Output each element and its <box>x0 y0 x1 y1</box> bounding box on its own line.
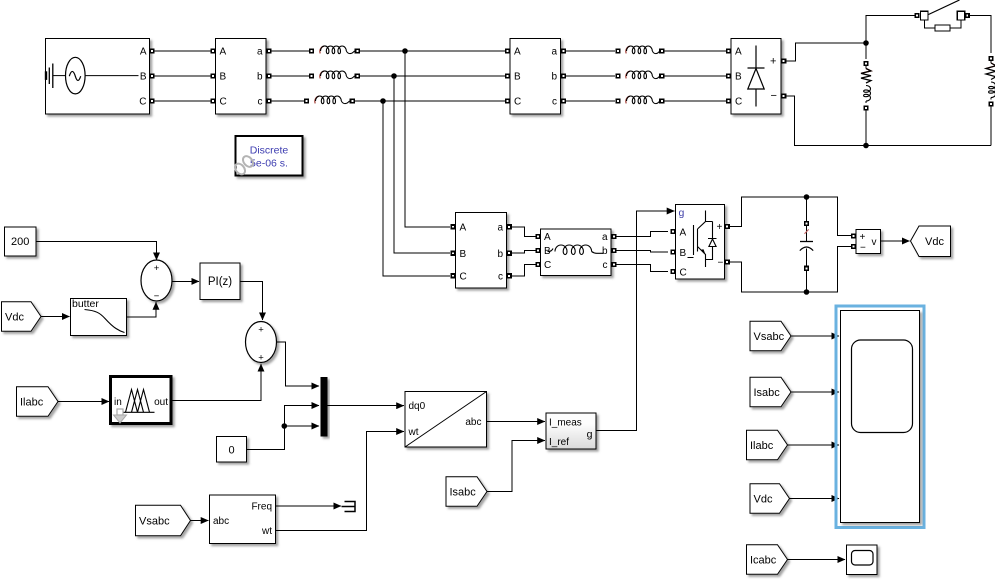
svg-text:+: + <box>258 325 264 336</box>
svg-text:B: B <box>514 72 521 83</box>
wire source B to measurement1 B <box>155 75 211 77</box>
wire rectifier + to load bus <box>786 43 863 61</box>
svg-text:C: C <box>544 260 551 271</box>
svg-text:−: − <box>718 258 724 269</box>
svg-text:b: b <box>257 72 263 83</box>
from tag Vsabc right <box>750 321 791 351</box>
svg-text:−: − <box>154 291 160 302</box>
wire Vsabc tag to PLL <box>191 520 209 522</box>
wire voltage measurement to Vdc goto <box>881 240 910 242</box>
svg-text:5e-06 s.: 5e-06 s. <box>250 158 288 170</box>
wire Ilabc tag to filter subsystem <box>58 401 109 403</box>
three-phase V-I measurement block 3 <box>456 213 507 289</box>
svg-text:Vdc: Vdc <box>925 236 944 248</box>
hysteresis current controller block <box>546 413 596 449</box>
from tag Isabc right <box>750 377 791 407</box>
svg-text:Vdc: Vdc <box>5 312 24 324</box>
node capacitor top <box>804 194 810 200</box>
constant block 0 <box>217 437 247 463</box>
svg-text:B: B <box>140 72 147 83</box>
butter lowpass filter block <box>71 299 127 336</box>
inductor Lb1 <box>309 71 360 79</box>
svg-text:c: c <box>603 260 608 271</box>
wire tap A down to measurement3 <box>405 51 450 227</box>
svg-text:a: a <box>257 47 263 58</box>
svg-text:in: in <box>114 397 122 408</box>
wire m3 a to L block A <box>512 227 536 237</box>
svg-text:Icabc: Icabc <box>750 555 777 567</box>
wire IGBT - to DC bus bottom <box>730 247 851 293</box>
wire top to breaker <box>866 16 915 44</box>
svg-text:b: b <box>497 249 503 260</box>
wire to inductor La1 <box>272 50 310 52</box>
svg-text:c: c <box>498 271 503 282</box>
sum block 1 <box>141 260 172 301</box>
constant block 200 <box>5 227 37 256</box>
svg-text:Discrete: Discrete <box>250 145 289 157</box>
three-phase series inductor block <box>541 229 612 276</box>
svg-text:Ilabc: Ilabc <box>20 397 44 409</box>
scope block selected <box>836 306 924 528</box>
wire butter to sum1 minus input <box>127 302 156 317</box>
inductor Lb2 <box>615 71 664 79</box>
series RLC load branch 1 <box>861 43 871 146</box>
node DC+ top <box>863 40 869 46</box>
terminator block <box>342 502 356 512</box>
wire to inductor La2 <box>566 50 615 52</box>
svg-text:A: A <box>220 47 227 58</box>
scope1 small block <box>847 545 878 575</box>
svg-text:−: − <box>771 90 777 102</box>
svg-text:v: v <box>872 237 877 248</box>
wire controller g to IGBT gate <box>596 211 674 431</box>
from tag Vdc left <box>2 302 42 332</box>
svg-text:PI(z): PI(z) <box>208 276 232 288</box>
mux block <box>321 377 328 437</box>
node phase A tap <box>402 48 408 54</box>
filter subsystem in-out block <box>111 377 172 424</box>
wire L b to IGBT B <box>616 251 668 253</box>
from tag Ilabc right <box>747 430 788 460</box>
svg-text:+: + <box>770 56 776 68</box>
wire tap C down to measurement3 <box>383 101 450 276</box>
three-phase source block <box>46 39 150 115</box>
svg-text:C: C <box>460 271 467 282</box>
wire to inductor Lc1 <box>272 100 305 102</box>
wire from inductor Lc1 <box>355 100 508 102</box>
inductor Lc1 <box>304 96 355 104</box>
wire Vsabc to scope <box>791 335 839 337</box>
svg-text:C: C <box>514 97 521 108</box>
wire Vdc to scope <box>790 498 840 500</box>
from tag Ilabc left <box>17 387 59 417</box>
wire L a to IGBT A <box>616 232 668 237</box>
sum block 2 <box>246 322 277 363</box>
wire dq0 abc output to current controller <box>487 421 545 423</box>
svg-text:a: a <box>497 222 503 233</box>
svg-text:b: b <box>551 72 557 83</box>
wire mux to dq0 transform <box>328 405 404 407</box>
wire Vdc tag to butter filter <box>41 316 70 318</box>
wire m3 c to L block C <box>512 265 536 276</box>
wire to inductor Lb2 <box>566 75 615 77</box>
svg-text:A: A <box>735 47 742 58</box>
svg-text:abc: abc <box>213 516 229 527</box>
svg-text:abc: abc <box>465 417 481 428</box>
svg-text:A: A <box>680 227 687 238</box>
svg-text:B: B <box>460 249 467 260</box>
from tag Vsabc left <box>136 505 191 536</box>
svg-text:Isabc: Isabc <box>450 487 477 499</box>
wire 200 to sum1 <box>36 241 156 260</box>
svg-text:+: + <box>258 353 264 364</box>
svg-text:I_meas: I_meas <box>549 418 582 429</box>
svg-text:Isabc: Isabc <box>754 387 781 399</box>
wire from inductor Lb2 to rectifier <box>664 75 726 77</box>
wire to inductor Lc2 <box>566 100 615 102</box>
discrete PI controller block PI(z) <box>200 263 240 300</box>
inductor Lc2 <box>615 96 664 104</box>
svg-text:c: c <box>258 97 263 108</box>
from tag Icabc <box>747 545 788 575</box>
wire PLL wt to dq0 transform wt <box>276 432 404 531</box>
wire IGBT + to DC bus top <box>730 197 851 236</box>
from tag Isabc middle <box>446 477 487 507</box>
wire breaker to load2 <box>970 16 991 54</box>
svg-text:A: A <box>140 47 147 58</box>
node phase C tap <box>380 98 386 104</box>
svg-text:Vsabc: Vsabc <box>754 331 785 343</box>
node capacitor bottom <box>804 289 810 295</box>
svg-text:0: 0 <box>228 444 234 456</box>
svg-text:B: B <box>680 248 687 259</box>
svg-text:C: C <box>680 267 687 278</box>
svg-text:g: g <box>587 429 593 441</box>
svg-text:dq0: dq0 <box>409 401 426 412</box>
svg-text:C: C <box>139 97 146 108</box>
DC link capacitor branch <box>800 197 813 292</box>
wire filter out to sum2 plus input <box>172 364 261 401</box>
wire source A to measurement1 A <box>155 50 211 52</box>
wire Ilabc to scope <box>788 444 840 446</box>
inductor La2 <box>615 46 664 54</box>
svg-text:a: a <box>551 47 557 58</box>
wire rectifier - to bottom bus <box>786 96 991 146</box>
svg-text:+: + <box>154 263 160 274</box>
wire 0 to mux input3 <box>247 426 319 450</box>
inductor La1 <box>309 46 360 54</box>
svg-text:out: out <box>154 397 168 408</box>
svg-text:C: C <box>735 97 742 108</box>
svg-text:Vdc: Vdc <box>754 494 773 506</box>
svg-text:200: 200 <box>11 236 29 248</box>
breaker <box>914 0 970 31</box>
from tag Vdc right <box>750 484 790 514</box>
node DC- bottom <box>863 143 869 149</box>
wire from inductor Lb1 <box>360 75 508 77</box>
svg-text:a: a <box>602 232 608 243</box>
goto tag Vdc <box>911 226 951 257</box>
wire m3 b to L block B <box>512 251 536 254</box>
svg-text:A: A <box>544 232 551 243</box>
svg-text:b: b <box>602 246 608 257</box>
svg-text:butter: butter <box>72 298 99 310</box>
dq0 to abc transform block <box>405 392 487 448</box>
svg-text:−: − <box>860 243 866 254</box>
svg-text:wt: wt <box>408 427 419 438</box>
three-phase V-I measurement block 2 <box>510 39 561 115</box>
svg-text:B: B <box>735 72 742 83</box>
svg-text:Ilabc: Ilabc <box>750 440 774 452</box>
wire sum2 to mux input1 <box>277 342 319 386</box>
wire from inductor Lc2 to rectifier <box>664 100 726 102</box>
svg-text:I_ref: I_ref <box>549 437 569 448</box>
wire Isabc tag to I_ref input <box>487 441 545 492</box>
wire node to mux input2 <box>284 406 319 427</box>
wire Icabc to scope1 <box>788 559 846 561</box>
svg-text:wt: wt <box>261 526 272 537</box>
wire sum1 to PI controller <box>172 280 199 282</box>
svg-text:+: + <box>860 232 866 243</box>
wire Isabc to scope <box>791 391 839 393</box>
powergui block Discrete 5e-06 s <box>236 136 303 176</box>
svg-text:Freq: Freq <box>251 502 272 513</box>
svg-text:+: + <box>717 222 723 233</box>
wire PI(z) to sum2 <box>240 281 262 320</box>
wire L c to IGBT C <box>616 265 668 272</box>
svg-text:C: C <box>220 97 227 108</box>
svg-text:Vsabc: Vsabc <box>139 516 170 528</box>
PLL block <box>210 495 276 544</box>
three-phase V-I measurement block 1 <box>216 39 267 115</box>
IGBT converter block <box>676 205 725 280</box>
svg-text:A: A <box>514 47 521 58</box>
series RLC load branch 2 <box>986 56 995 146</box>
voltage measurement block <box>856 230 881 254</box>
wire from inductor La2 to rectifier <box>664 50 726 52</box>
svg-text:g: g <box>679 207 685 219</box>
wire from inductor La1 <box>360 50 508 52</box>
wire tap B down to measurement3 <box>394 76 450 253</box>
svg-text:A: A <box>460 222 467 233</box>
svg-text:c: c <box>552 97 557 108</box>
node phase B tap <box>391 73 397 79</box>
wire PLL Freq to terminator <box>276 505 341 507</box>
svg-text:B: B <box>220 72 227 83</box>
diode rectifier block <box>731 39 781 115</box>
wire to inductor Lb1 <box>272 75 310 77</box>
wire source C to measurement1 C <box>155 100 211 102</box>
node mux branch <box>282 423 288 429</box>
